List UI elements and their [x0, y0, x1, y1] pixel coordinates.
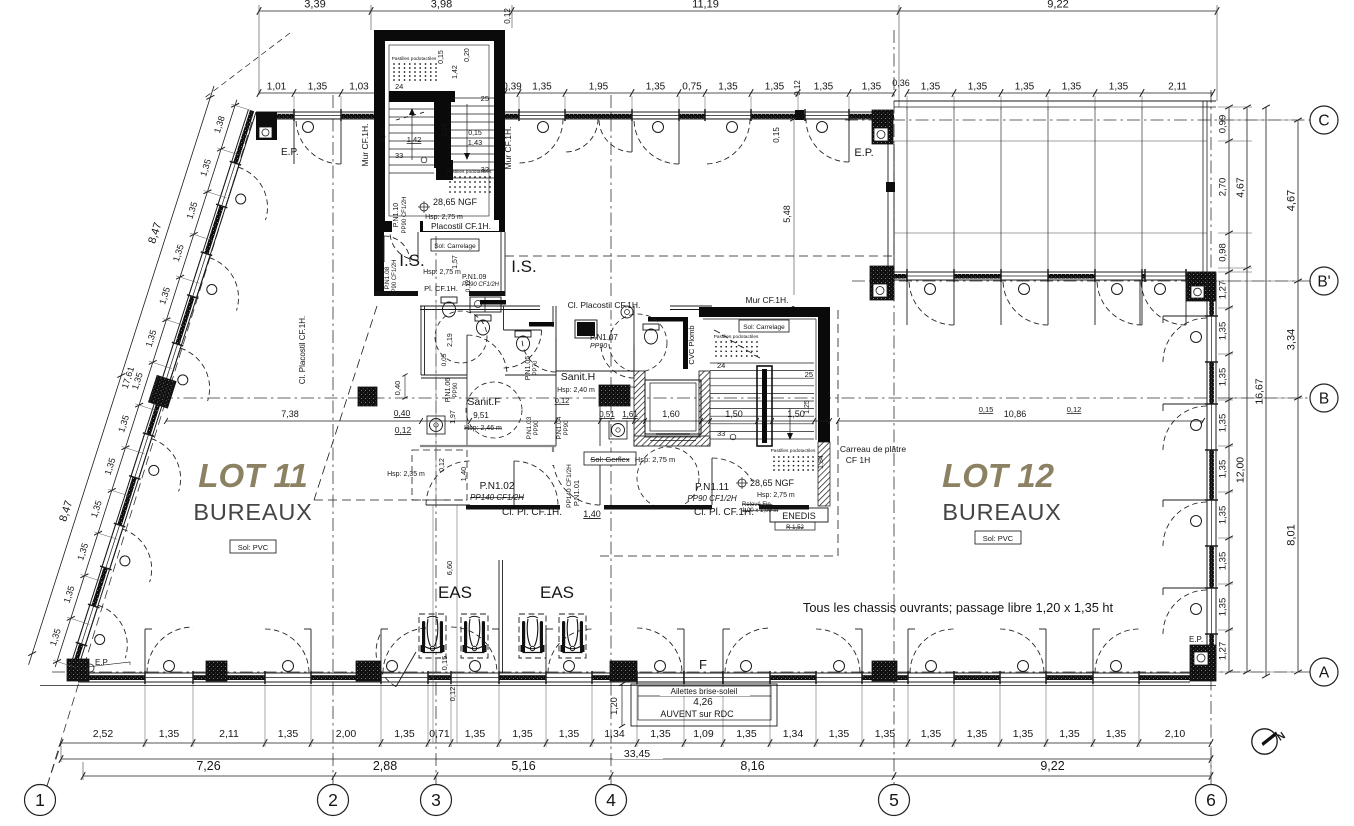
svg-text:1,35: 1,35	[308, 82, 328, 93]
dim 1.20 auvent	[621, 684, 623, 726]
svg-text:4,26: 4,26	[693, 697, 713, 708]
door arc right wall	[1163, 587, 1207, 589]
svg-text:1,34: 1,34	[783, 728, 804, 740]
door arcs bottom wall	[144, 629, 146, 673]
svg-text:0,15: 0,15	[438, 50, 445, 64]
svg-text:0,15: 0,15	[979, 405, 994, 414]
svg-text:1,35: 1,35	[1015, 82, 1035, 93]
svg-text:0,12: 0,12	[793, 80, 802, 96]
door arc right wall	[1163, 315, 1207, 317]
svg-text:0,12: 0,12	[1067, 405, 1082, 414]
svg-text:1,35: 1,35	[1218, 598, 1229, 617]
Sanit.F room	[421, 374, 467, 376]
door O right wall	[1191, 604, 1202, 615]
svg-text:0,12: 0,12	[448, 687, 457, 702]
slanted wall pier mid B	[148, 375, 176, 408]
svg-text:0,20: 0,20	[464, 48, 471, 62]
svg-text:Pastilles podotactiles: Pastilles podotactiles	[714, 334, 759, 340]
svg-text:1,35: 1,35	[1013, 728, 1034, 740]
svg-text:28,65 NGF: 28,65 NGF	[433, 197, 478, 207]
long dashed line right of I.S.	[505, 255, 892, 257]
core left wall	[420, 306, 422, 375]
svg-text:2,10: 2,10	[1165, 728, 1186, 740]
stair1 spine wall	[389, 91, 455, 102]
svg-text:PP90: PP90	[453, 382, 459, 397]
east wall of notch	[887, 119, 889, 272]
lift cabin	[645, 380, 701, 434]
svg-text:Cl. Pl. CF.1H.: Cl. Pl. CF.1H.	[502, 507, 562, 518]
svg-text:E.P.: E.P.	[1189, 635, 1203, 644]
svg-text:CVC Plomb: CVC Plomb	[687, 325, 696, 364]
svg-text:1,57: 1,57	[452, 255, 459, 269]
svg-text:16,67: 16,67	[1254, 378, 1266, 404]
stair1 level mark 28.65 NGF	[420, 203, 428, 211]
svg-text:PP90: PP90	[564, 420, 570, 435]
svg-text:1,35: 1,35	[1062, 82, 1082, 93]
terrace right edge	[1202, 101, 1204, 272]
door O B' 1	[925, 284, 936, 295]
svg-text:Hsp: 2,35 m: Hsp: 2,35 m	[387, 471, 425, 478]
stair core 1 outer walls	[385, 41, 494, 221]
svg-text:1,35: 1,35	[1218, 414, 1229, 433]
EAS door arc	[376, 632, 396, 687]
grid bubble 4	[596, 785, 627, 816]
svg-text:2,52: 2,52	[93, 728, 114, 740]
svg-text:Ailettes brise-soleil: Ailettes brise-soleil	[671, 687, 738, 696]
terrace mullions	[906, 107, 908, 272]
stair2 treads	[710, 362, 814, 364]
core top wall	[420, 305, 712, 307]
lift shaft hatched walls	[634, 371, 645, 446]
svg-text:1,35: 1,35	[829, 728, 850, 740]
B' wall band	[894, 274, 1216, 279]
door arc B' 4	[1141, 280, 1186, 325]
svg-text:1,35: 1,35	[862, 82, 882, 93]
grid 1 slanted leader	[47, 741, 62, 786]
slanted dim chain 1.35	[55, 100, 237, 667]
stair2 black walls	[699, 307, 830, 317]
svg-text:0,12: 0,12	[465, 279, 472, 292]
svg-text:1,35: 1,35	[1109, 82, 1129, 93]
grid bubble 2	[318, 785, 349, 816]
door O B' 2	[1019, 284, 1030, 295]
grid bubble 6	[1196, 785, 1227, 816]
vertical partition below core	[498, 560, 500, 673]
double door arcs top	[565, 119, 598, 152]
door O right wall	[1191, 332, 1202, 343]
svg-text:Hsp: 2,75 m: Hsp: 2,75 m	[423, 269, 461, 276]
ENEDIS box	[770, 508, 828, 522]
door O top 2	[538, 122, 549, 133]
top wall windows	[294, 113, 341, 119]
svg-text:0,15: 0,15	[468, 130, 482, 137]
svg-text:Pl. CF.1H.: Pl. CF.1H.	[424, 284, 458, 293]
core dashed boundary diagonal	[314, 306, 377, 500]
svg-text:Sanit.H: Sanit.H	[561, 371, 595, 383]
grid line 4 (vertical)	[610, 95, 612, 784]
bottom-left corner pier E.P.	[67, 659, 89, 681]
svg-text:PP140 CF1/2H: PP140 CF1/2H	[470, 493, 524, 502]
slanted door arc	[123, 529, 152, 582]
terrace top edge lines	[894, 100, 1216, 102]
svg-text:R 1,52: R 1,52	[786, 525, 804, 531]
terrace line 2.70	[894, 232, 1207, 234]
svg-text:1,97: 1,97	[450, 410, 457, 424]
auvent outline	[631, 684, 777, 726]
stair1 exit door arc	[390, 232, 418, 260]
right dim line 10.86	[838, 420, 1203, 422]
svg-text:1,35: 1,35	[967, 728, 988, 740]
svg-text:BUREAUX: BUREAUX	[193, 499, 312, 525]
door O right wall	[1191, 420, 1202, 431]
svg-text:LOT 11: LOT 11	[198, 457, 307, 494]
svg-text:PP90: PP90	[534, 420, 540, 435]
svg-text:Pastilles podotactiles: Pastilles podotactiles	[447, 169, 492, 175]
right dim chain outer 4.67/3.34/8.01	[1297, 120, 1299, 672]
svg-text:0,36: 0,36	[892, 78, 910, 88]
top wall band	[256, 114, 894, 119]
svg-text:1,35: 1,35	[1218, 506, 1229, 525]
svg-text:1,35: 1,35	[394, 728, 415, 740]
bottom wall band	[78, 675, 1190, 680]
I.S. bottom walls	[374, 291, 418, 296]
svg-text:4: 4	[606, 790, 616, 810]
door arc B' 3	[1097, 280, 1142, 325]
grid bubble B	[1310, 384, 1338, 412]
gray wall under Sanit.F	[420, 445, 556, 447]
svg-text:P.N1.08: P.N1.08	[384, 266, 391, 289]
svg-text:1,35: 1,35	[765, 82, 785, 93]
svg-text:1,84: 1,84	[818, 455, 825, 469]
svg-text:1,09: 1,09	[693, 728, 714, 740]
svg-text:3,34: 3,34	[1286, 329, 1298, 350]
top-right pier E.P.	[872, 110, 893, 144]
label Mur CF.1H top right	[735, 295, 799, 306]
svg-text:1,40: 1,40	[583, 509, 601, 519]
svg-text:CF 1H: CF 1H	[846, 455, 871, 465]
grid line A (horizontal)	[52, 671, 1310, 673]
svg-text:1,35: 1,35	[1218, 368, 1229, 387]
extension line grid3 in core	[435, 300, 437, 505]
svg-text:Cl. Placostil CF.1H.: Cl. Placostil CF.1H.	[298, 316, 307, 384]
right wall windows	[1208, 316, 1215, 362]
bottom dimension row 1	[61, 742, 1211, 744]
svg-text:3,98: 3,98	[431, 0, 452, 11]
door O top 3	[653, 122, 664, 133]
svg-text:0,39: 0,39	[502, 82, 522, 93]
bottom wall piers	[206, 661, 227, 681]
svg-text:1,50: 1,50	[787, 409, 805, 419]
svg-text:Mur CF.1H.: Mur CF.1H.	[360, 124, 370, 167]
svg-text:B': B'	[1317, 274, 1330, 291]
svg-text:I.S.: I.S.	[399, 251, 425, 270]
svg-text:1,35: 1,35	[814, 82, 834, 93]
svg-text:0,12: 0,12	[395, 425, 412, 435]
level mark 28.65 right	[738, 479, 746, 487]
svg-text:2,11: 2,11	[219, 728, 239, 740]
right wall bottom pier E.P.	[1190, 645, 1216, 681]
B' corner pier left	[870, 266, 894, 300]
svg-text:I.S.: I.S.	[511, 257, 537, 276]
corridor bottom walls	[466, 505, 560, 510]
svg-text:2,70: 2,70	[1218, 178, 1229, 197]
dim 6.60 vertical	[456, 505, 458, 743]
svg-text:4,67: 4,67	[1286, 190, 1298, 211]
grid line 3 (vertical)	[435, 95, 437, 784]
corridor labels	[536, 452, 636, 465]
svg-text:P.N1.11: P.N1.11	[695, 482, 730, 493]
grid bubble 5	[879, 785, 910, 816]
dashed low-height zone	[412, 450, 467, 500]
I.S. right wall	[500, 232, 502, 296]
counter right of Sanit.F	[599, 387, 601, 446]
svg-text:Sol: Carrelage: Sol: Carrelage	[434, 243, 476, 250]
column pier at B	[358, 387, 377, 406]
bottom total dim 33.45	[61, 758, 1211, 760]
svg-text:Hsp: 2,40 m: Hsp: 2,40 m	[557, 387, 595, 394]
svg-text:Placostil CF.1H.: Placostil CF.1H.	[431, 221, 491, 231]
svg-text:Sol: PVC: Sol: PVC	[983, 534, 1014, 543]
grid line B (horizontal)	[160, 397, 1310, 399]
stair1 right flight treads	[451, 97, 494, 99]
grid bubble 1	[25, 785, 56, 816]
svg-text:8,16: 8,16	[740, 759, 764, 773]
svg-text:BUREAUX: BUREAUX	[942, 499, 1061, 525]
svg-text:0,12: 0,12	[503, 8, 512, 24]
svg-text:12,00: 12,00	[1235, 457, 1247, 483]
bottom wall outer line	[40, 685, 1216, 687]
svg-text:2: 2	[328, 790, 338, 810]
svg-text:1,35: 1,35	[1059, 728, 1080, 740]
door O right wall	[1191, 516, 1202, 527]
svg-text:0,19: 0,19	[380, 128, 387, 142]
stair2 liner	[703, 318, 816, 320]
svg-text:8,01: 8,01	[1286, 524, 1298, 545]
B' 4th window	[1145, 273, 1186, 279]
svg-text:0,05: 0,05	[441, 353, 448, 366]
door O B' 3	[1112, 284, 1123, 295]
svg-text:24: 24	[395, 82, 403, 91]
B' corner pier right	[1186, 272, 1216, 301]
svg-text:LOT 12: LOT 12	[942, 457, 1055, 494]
svg-text:1,35: 1,35	[968, 82, 988, 93]
svg-text:0,98: 0,98	[1218, 243, 1229, 262]
svg-text:Hsp: 2,46 m: Hsp: 2,46 m	[464, 425, 502, 432]
svg-text:Sol: Gerflex: Sol: Gerflex	[590, 455, 629, 464]
svg-text:9,22: 9,22	[1047, 0, 1068, 11]
grid line C (horizontal)	[845, 119, 1310, 121]
dim 5.48 vertical	[793, 119, 795, 306]
svg-text:Sol: PVC: Sol: PVC	[238, 543, 269, 552]
grid line 5 (vertical)	[893, 30, 895, 784]
svg-text:1,35: 1,35	[559, 728, 580, 740]
svg-text:1,27: 1,27	[1218, 281, 1229, 300]
stair2 travel dashes	[714, 330, 720, 333]
right dim chain 4.67/12.00	[1246, 107, 1248, 672]
svg-text:C: C	[1318, 113, 1329, 130]
door O top 5	[817, 122, 828, 133]
door arc top window 2	[519, 119, 563, 163]
svg-text:Sol: Carrelage: Sol: Carrelage	[743, 324, 785, 331]
svg-text:0,15: 0,15	[772, 127, 781, 143]
svg-text:1,42: 1,42	[452, 65, 459, 79]
svg-text:Hsp: 2,75 m: Hsp: 2,75 m	[757, 492, 795, 499]
svg-text:0,99: 0,99	[1218, 115, 1229, 134]
stair1 left flight treads	[389, 108, 434, 110]
svg-text:25: 25	[805, 370, 813, 379]
svg-text:1,35: 1,35	[921, 82, 941, 93]
slanted door arc	[151, 439, 180, 492]
Sol Carrelage stair2	[739, 320, 789, 332]
pier on top wall 0.12	[795, 110, 804, 120]
svg-text:1,35: 1,35	[1218, 322, 1229, 341]
stair2 stringer	[757, 366, 772, 446]
svg-text:F: F	[699, 657, 707, 672]
I.S. door arc left	[384, 236, 410, 262]
svg-text:B: B	[1319, 391, 1329, 408]
svg-text:7,26: 7,26	[196, 759, 220, 773]
svg-text:9,51: 9,51	[473, 411, 489, 420]
svg-text:1,95: 1,95	[589, 82, 609, 93]
svg-text:1,20: 1,20	[609, 697, 619, 715]
top dimension row 2 terrace	[907, 92, 1213, 94]
svg-text:E.P.: E.P.	[854, 147, 873, 159]
svg-text:PP90 CF1/2H: PP90 CF1/2H	[402, 196, 408, 233]
svg-text:1,35: 1,35	[465, 728, 486, 740]
top dimension row 2 left	[259, 92, 377, 94]
svg-text:6,60: 6,60	[445, 561, 454, 576]
door O top 4	[727, 122, 738, 133]
svg-text:1,50: 1,50	[725, 409, 743, 419]
svg-text:1,25: 1,25	[804, 400, 811, 414]
svg-text:1,35: 1,35	[278, 728, 299, 740]
svg-text:33,45: 33,45	[624, 748, 650, 760]
grid bubble C	[1310, 106, 1338, 134]
svg-text:0,75: 0,75	[682, 82, 702, 93]
door arc B' 1	[909, 280, 954, 325]
svg-text:ENEDIS: ENEDIS	[782, 511, 816, 521]
svg-text:1,35: 1,35	[532, 82, 552, 93]
svg-text:33: 33	[395, 151, 403, 160]
svg-text:1,60: 1,60	[662, 409, 680, 419]
door arc B' 2	[1003, 280, 1048, 325]
svg-text:1,35: 1,35	[646, 82, 666, 93]
grid bubble 3	[421, 785, 452, 816]
svg-text:Hsp: 2,75 m: Hsp: 2,75 m	[425, 214, 463, 221]
door arc top window 3	[634, 119, 679, 164]
door arc right wall	[1163, 403, 1207, 405]
svg-text:P.N1.06: P.N1.06	[445, 378, 452, 402]
svg-text:9,22: 9,22	[1040, 759, 1064, 773]
svg-text:P.N1.03: P.N1.03	[526, 416, 533, 439]
small vertical dim 0.40	[404, 375, 406, 398]
door arc top window 4	[705, 119, 750, 164]
right dim chain 16.67	[1265, 107, 1267, 676]
svg-text:1,03: 1,03	[349, 82, 369, 93]
grid bubble A	[1310, 658, 1338, 686]
svg-text:P.N1.01: P.N1.01	[572, 480, 581, 506]
core dashed boundary right	[837, 310, 839, 556]
svg-text:EAS: EAS	[540, 583, 574, 602]
slanted door arc	[180, 348, 209, 401]
stair1 travel arrows	[411, 112, 413, 160]
duct block	[599, 385, 630, 406]
svg-text:24: 24	[717, 361, 725, 370]
svg-text:Hsp: 2,75 m: Hsp: 2,75 m	[635, 455, 675, 464]
EAS wheelchair boxes	[419, 614, 446, 658]
slanted door arc	[98, 605, 127, 658]
svg-text:2,88: 2,88	[373, 759, 397, 773]
svg-text:1,00 x 1,00 m: 1,00 x 1,00 m	[742, 508, 778, 514]
label Sol PVC 12	[975, 531, 1021, 544]
svg-text:1,35: 1,35	[718, 82, 738, 93]
svg-text:6: 6	[1206, 790, 1216, 810]
svg-text:0,40: 0,40	[393, 381, 402, 396]
svg-text:P.N1.07: P.N1.07	[590, 333, 618, 342]
svg-text:E.P.: E.P.	[281, 147, 299, 158]
toilets and basins	[441, 297, 457, 317]
B' wall windows	[907, 273, 954, 279]
grid line 1 (slanted)	[47, 118, 253, 786]
svg-text:1,35: 1,35	[512, 728, 533, 740]
svg-text:0,40: 0,40	[394, 408, 411, 418]
door arc top window 1	[296, 119, 341, 164]
svg-text:1,35: 1,35	[159, 728, 180, 740]
svg-text:PP70: PP70	[533, 360, 539, 375]
svg-text:3,39: 3,39	[304, 0, 325, 11]
top-left corner pier E.P.	[256, 112, 277, 140]
svg-text:5: 5	[889, 790, 899, 810]
svg-text:PP90 CF1/2H: PP90 CF1/2H	[392, 259, 398, 296]
svg-text:33: 33	[717, 429, 725, 438]
north arrow	[1252, 729, 1277, 754]
svg-text:11,19: 11,19	[692, 0, 719, 11]
svg-text:5,48: 5,48	[782, 205, 792, 223]
door O B' 4	[1155, 284, 1166, 295]
svg-text:1: 1	[35, 790, 45, 810]
svg-text:0,12: 0,12	[555, 396, 570, 405]
slanted door arc	[238, 167, 267, 220]
svg-text:0,71: 0,71	[429, 728, 450, 740]
svg-text:P.N1.10: P.N1.10	[393, 203, 400, 227]
stair core 1 inner liner	[389, 45, 489, 216]
label Sol PVC 11	[230, 540, 276, 553]
sanit partitions	[480, 300, 506, 305]
svg-text:1,01: 1,01	[267, 82, 287, 93]
svg-text:PP140 CF1/2H: PP140 CF1/2H	[566, 464, 573, 508]
svg-text:1,35: 1,35	[875, 728, 896, 740]
svg-text:2,24: 2,24	[442, 123, 449, 137]
slanted dim chain 8.47/17.61	[29, 86, 214, 665]
svg-text:PP90 CF1/2H: PP90 CF1/2H	[687, 494, 737, 503]
grid bubble B'	[1310, 267, 1338, 295]
top dimension row 1	[259, 10, 1217, 12]
grid line 6 (vertical)	[1210, 90, 1212, 784]
svg-text:1,34: 1,34	[604, 728, 625, 740]
core interior door arcs	[467, 335, 507, 375]
maneuver circles dashed	[609, 314, 667, 372]
fixture below I.S.	[470, 297, 501, 312]
svg-text:1,61: 1,61	[622, 410, 638, 419]
svg-text:AUVENT sur RDC: AUVENT sur RDC	[660, 709, 734, 719]
I.S. left wall	[374, 232, 384, 292]
grid line B' (horizontal)	[852, 280, 1310, 282]
svg-text:PP90: PP90	[590, 343, 607, 350]
svg-text:5,16: 5,16	[511, 759, 535, 773]
slanted door arc	[209, 258, 238, 311]
svg-text:1,35: 1,35	[1218, 460, 1229, 479]
svg-text:A: A	[1319, 665, 1330, 682]
